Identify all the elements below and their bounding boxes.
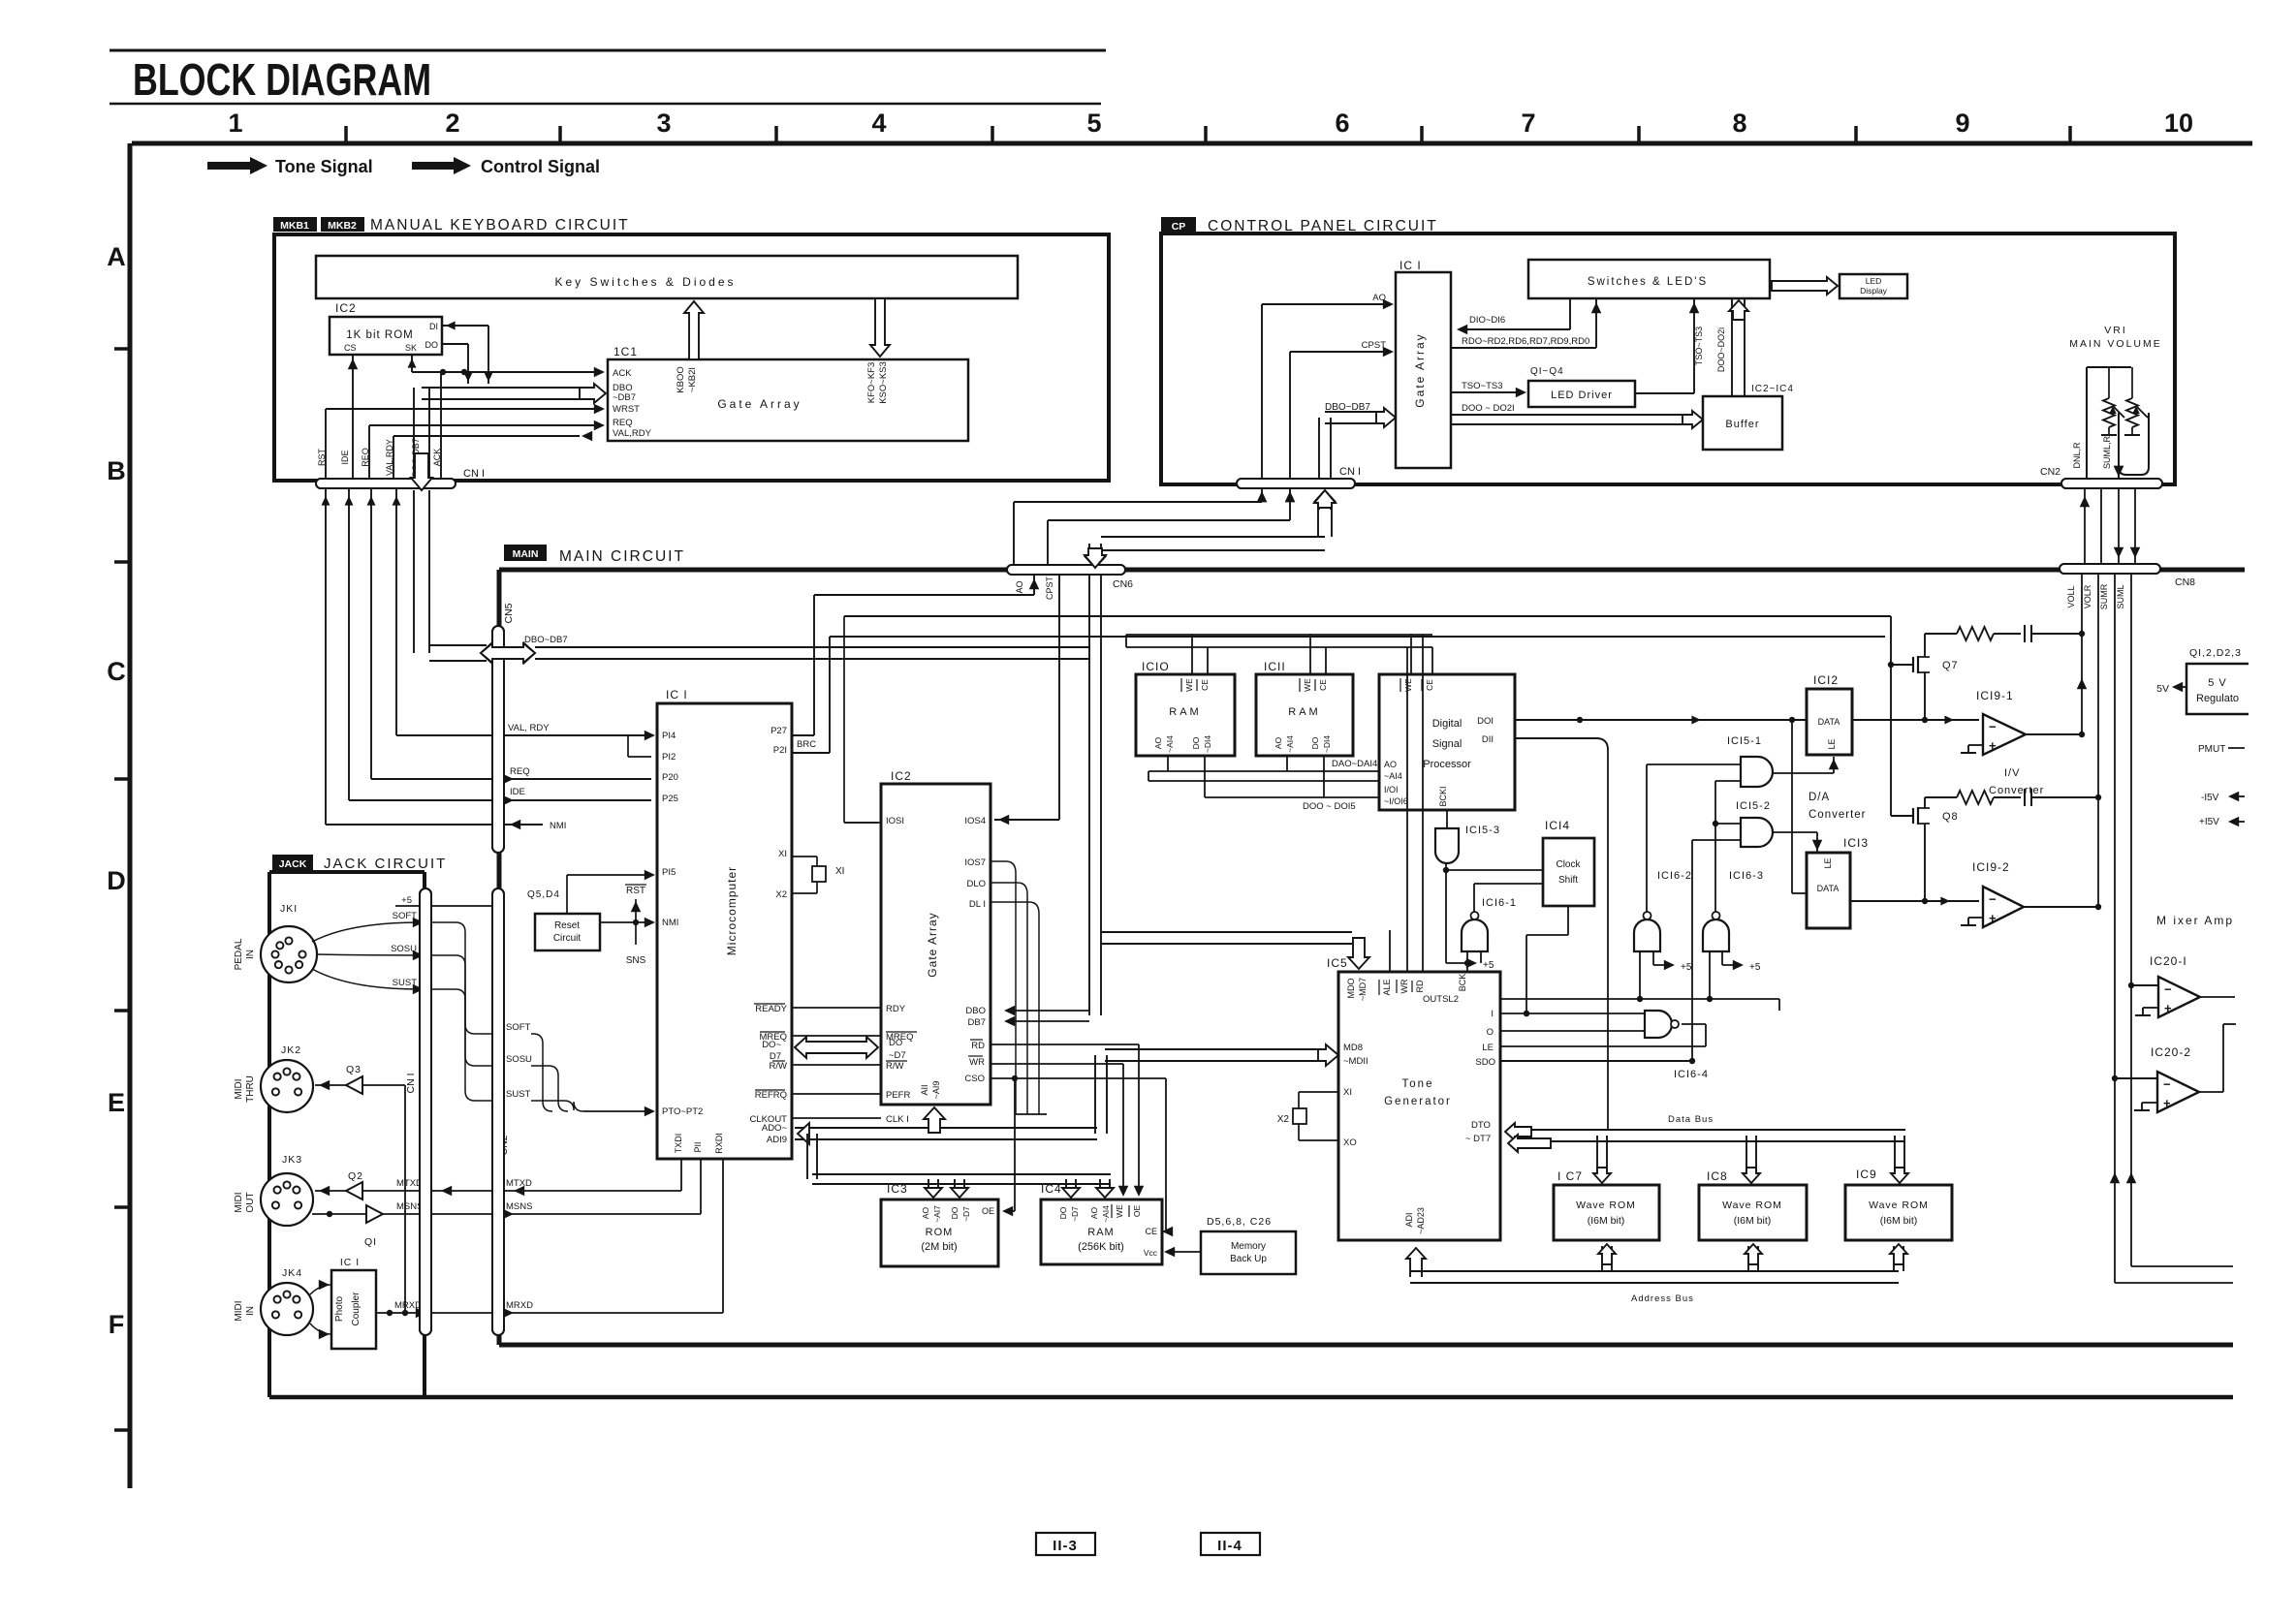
svg-text:THRU: THRU [245, 1075, 256, 1103]
svg-text:DO: DO [889, 1038, 902, 1048]
svg-text:DB7: DB7 [968, 1017, 986, 1028]
svg-text:CE: CE [1318, 679, 1328, 691]
svg-text:DL I: DL I [969, 899, 986, 910]
svg-text:IC2: IC2 [891, 769, 912, 783]
svg-text:SOSU: SOSU [506, 1054, 532, 1065]
svg-text:RAM: RAM [1288, 706, 1320, 718]
svg-text:AO: AO [1372, 293, 1386, 303]
svg-text:~D7: ~D7 [1070, 1206, 1080, 1222]
svg-text:SNS: SNS [626, 955, 646, 966]
svg-text:PEDAL: PEDAL [234, 938, 244, 970]
svg-text:DOI: DOI [1477, 716, 1494, 727]
svg-text:CE: CE [1145, 1227, 1157, 1236]
svg-text:ICI5-3: ICI5-3 [1465, 825, 1500, 836]
svg-text:ICI9-1: ICI9-1 [1976, 689, 2014, 702]
svg-text:BCK: BCK [1458, 974, 1467, 992]
svg-text:4: 4 [871, 109, 886, 138]
svg-text:VOLR: VOLR [2083, 584, 2092, 608]
svg-text:Clock: Clock [1556, 859, 1581, 870]
svg-text:VAL, RDY: VAL, RDY [508, 723, 550, 733]
svg-text:ICI6-3: ICI6-3 [1729, 870, 1764, 882]
svg-text:SUML,R: SUML,R [2102, 436, 2112, 470]
svg-text:LE: LE [1823, 857, 1833, 868]
svg-text:WR: WR [1400, 979, 1409, 993]
svg-text:IDE: IDE [340, 450, 350, 464]
svg-text:IDE: IDE [510, 787, 525, 797]
svg-text:SUML: SUML [2116, 584, 2125, 608]
svg-text:+5: +5 [401, 895, 412, 906]
svg-text:−: − [2163, 1076, 2171, 1091]
svg-text:~DB7: ~DB7 [613, 392, 636, 403]
svg-text:8: 8 [1732, 109, 1746, 138]
svg-text:AO: AO [1089, 1206, 1099, 1219]
svg-text:CSO: CSO [964, 1074, 985, 1084]
svg-text:RD: RD [971, 1041, 985, 1051]
svg-text:DBO: DBO [965, 1006, 986, 1016]
svg-text:AO: AO [921, 1206, 930, 1219]
svg-text:ICI2: ICI2 [1813, 673, 1839, 687]
svg-text:IC I: IC I [666, 688, 688, 701]
svg-text:II-3: II-3 [1053, 1538, 1078, 1554]
svg-text:CPST: CPST [1045, 576, 1054, 601]
svg-text:RAM: RAM [1087, 1227, 1114, 1238]
svg-text:~AI4: ~AI4 [1165, 735, 1175, 753]
svg-text:REQ: REQ [613, 418, 633, 428]
svg-text:Reset: Reset [554, 920, 580, 931]
svg-text:XI: XI [835, 866, 844, 877]
svg-text:SUST: SUST [506, 1089, 531, 1100]
svg-text:Shift: Shift [1558, 875, 1578, 886]
svg-text:LE: LE [1827, 738, 1837, 749]
svg-text:MAIN VOLUME: MAIN VOLUME [2069, 338, 2162, 350]
svg-text:DO: DO [950, 1206, 959, 1219]
svg-text:I C7: I C7 [1557, 1169, 1583, 1183]
svg-text:Wave ROM: Wave ROM [1869, 1199, 1929, 1211]
svg-text:Key Switches & Diodes: Key Switches & Diodes [554, 275, 736, 289]
svg-text:Display: Display [1860, 286, 1888, 296]
svg-text:M ixer Amp: M ixer Amp [2156, 914, 2234, 927]
svg-text:ROM: ROM [926, 1227, 954, 1238]
svg-text:O: O [1487, 1027, 1494, 1038]
svg-text:QI,2,D2,3: QI,2,D2,3 [2189, 647, 2242, 659]
svg-text:10: 10 [2164, 109, 2193, 138]
svg-text:PMUT: PMUT [2198, 744, 2225, 755]
svg-text:ICI5-1: ICI5-1 [1727, 735, 1762, 747]
svg-text:E: E [108, 1088, 125, 1117]
svg-text:IC8: IC8 [1707, 1169, 1728, 1183]
svg-text:Tone Signal: Tone Signal [275, 157, 373, 176]
svg-text:(I6M bit): (I6M bit) [1588, 1215, 1625, 1227]
svg-text:DLO: DLO [966, 879, 986, 889]
svg-text:JK3: JK3 [282, 1154, 302, 1166]
svg-text:Circuit: Circuit [553, 933, 582, 944]
svg-text:1C1: 1C1 [613, 345, 638, 358]
svg-text:DI: DI [429, 322, 438, 331]
svg-text:TSO~TS3: TSO~TS3 [1694, 327, 1704, 365]
svg-text:DO~: DO~ [762, 1040, 781, 1050]
svg-text:~I/OI6: ~I/OI6 [1384, 796, 1408, 806]
svg-text:IOSI: IOSI [886, 816, 904, 826]
svg-text:Gate Array: Gate Array [1413, 332, 1427, 407]
svg-text:XI: XI [1343, 1087, 1352, 1098]
svg-text:−: − [1989, 891, 1997, 906]
svg-text:Regulato: Regulato [2196, 693, 2239, 704]
svg-text:JACK: JACK [279, 858, 307, 870]
svg-text:DNL,R: DNL,R [2072, 442, 2082, 469]
svg-text:READY: READY [755, 1004, 787, 1014]
svg-text:ACK: ACK [432, 449, 442, 467]
svg-text:KSO~KS3: KSO~KS3 [878, 361, 889, 404]
svg-text:DBO~DB7: DBO~DB7 [1325, 402, 1370, 413]
svg-text:RST: RST [317, 448, 327, 466]
svg-text:D/A: D/A [1808, 792, 1830, 803]
svg-text:REQ: REQ [361, 448, 370, 467]
svg-text:MKB1: MKB1 [280, 220, 309, 232]
svg-text:AO: AO [1015, 580, 1024, 593]
svg-text:ICI4: ICI4 [1545, 819, 1570, 832]
svg-text:PII: PII [693, 1141, 703, 1152]
svg-text:Coupler: Coupler [351, 1292, 362, 1326]
svg-text:ICII: ICII [1264, 660, 1286, 673]
svg-text:RDY: RDY [886, 1004, 906, 1014]
svg-text:CN I: CN I [1339, 466, 1361, 478]
svg-text:DO: DO [1191, 736, 1201, 749]
svg-text:MTXD: MTXD [506, 1178, 532, 1189]
svg-text:-I5V: -I5V [2201, 793, 2219, 803]
svg-text:Converter: Converter [1989, 785, 2044, 796]
svg-text:DIO~DI6: DIO~DI6 [1469, 315, 1505, 326]
svg-text:~AD23: ~AD23 [1416, 1207, 1426, 1234]
svg-text:6: 6 [1335, 109, 1349, 138]
svg-text:CN6: CN6 [1113, 578, 1133, 590]
svg-text:OE: OE [1132, 1205, 1142, 1218]
svg-text:BLOCK DIAGRAM: BLOCK DIAGRAM [133, 54, 431, 105]
svg-text:5: 5 [1086, 109, 1101, 138]
svg-text:Gate Array: Gate Array [926, 912, 939, 977]
svg-text:−: − [2164, 981, 2172, 996]
svg-text:OUTSL2: OUTSL2 [1423, 994, 1459, 1005]
svg-text:JACK CIRCUIT: JACK CIRCUIT [324, 856, 447, 872]
svg-text:MIDI: MIDI [234, 1192, 244, 1212]
svg-text:D7: D7 [770, 1051, 781, 1062]
svg-text:(256K bit): (256K bit) [1078, 1241, 1124, 1253]
svg-text:DOO ~ DO2I: DOO ~ DO2I [1462, 403, 1515, 414]
svg-text:II-4: II-4 [1217, 1538, 1242, 1554]
svg-text:MDO: MDO [1346, 979, 1356, 999]
svg-text:IC2~IC4: IC2~IC4 [1751, 384, 1794, 394]
svg-text:WE: WE [1403, 678, 1413, 692]
svg-text:~D7: ~D7 [889, 1050, 906, 1061]
svg-text:+: + [2163, 1096, 2171, 1110]
svg-text:Photo: Photo [334, 1295, 345, 1322]
svg-text:ICI6-4: ICI6-4 [1674, 1069, 1709, 1080]
svg-text:~AI4: ~AI4 [1101, 1205, 1111, 1223]
svg-text:WE: WE [1184, 678, 1194, 692]
svg-text:~AI7: ~AI7 [932, 1205, 942, 1223]
svg-text:CS: CS [344, 343, 357, 353]
svg-text:MD8: MD8 [1343, 1043, 1363, 1053]
svg-text:Wave ROM: Wave ROM [1722, 1199, 1782, 1211]
svg-text:SK: SK [405, 343, 417, 353]
svg-text:(2M bit): (2M bit) [921, 1241, 957, 1253]
svg-text:Q3: Q3 [346, 1064, 362, 1075]
svg-text:AO: AO [1274, 736, 1283, 749]
svg-text:Address Bus: Address Bus [1631, 1293, 1694, 1304]
svg-text:ACK: ACK [613, 368, 632, 379]
svg-text:MRXD: MRXD [506, 1300, 533, 1311]
svg-text:IC I: IC I [1400, 259, 1422, 272]
svg-text:(I6M bit): (I6M bit) [1880, 1215, 1918, 1227]
svg-text:Digital: Digital [1432, 718, 1463, 730]
svg-text:SOFT: SOFT [506, 1022, 531, 1033]
svg-text:+5: +5 [1483, 960, 1494, 971]
svg-text:~DI4: ~DI4 [1322, 735, 1332, 753]
svg-text:Microcomputer: Microcomputer [725, 866, 739, 955]
svg-text:~AI4: ~AI4 [1384, 771, 1402, 781]
svg-text:JK4: JK4 [282, 1267, 302, 1279]
svg-text:2: 2 [445, 109, 459, 138]
svg-text:ICI5-2: ICI5-2 [1736, 800, 1771, 812]
svg-text:Vcc: Vcc [1144, 1248, 1158, 1258]
svg-text:1: 1 [228, 109, 242, 138]
svg-text:MKB2: MKB2 [328, 220, 357, 232]
svg-text:LED Driver: LED Driver [1551, 389, 1613, 401]
svg-text:RST: RST [626, 886, 645, 896]
svg-text:I/OI: I/OI [1384, 785, 1399, 794]
svg-text:C: C [107, 657, 126, 686]
svg-text:R/W: R/W [770, 1061, 788, 1072]
svg-text:JK2: JK2 [281, 1044, 301, 1056]
svg-text:PTO~PT2: PTO~PT2 [662, 1106, 703, 1117]
svg-text:A: A [107, 242, 126, 271]
svg-text:Gate Array: Gate Array [717, 397, 802, 411]
svg-text:+5: +5 [1749, 962, 1761, 973]
svg-text:TSO~TS3: TSO~TS3 [1462, 381, 1503, 391]
svg-text:IC3: IC3 [887, 1182, 908, 1196]
svg-text:IC5: IC5 [1327, 956, 1348, 970]
svg-text:Processor: Processor [1423, 759, 1471, 770]
svg-text:DTO: DTO [1471, 1120, 1491, 1131]
svg-text:MIDI: MIDI [234, 1078, 244, 1099]
svg-text:KBOO: KBOO [676, 366, 686, 392]
svg-text:P20: P20 [662, 772, 678, 783]
svg-text:I: I [1491, 1009, 1494, 1019]
svg-text:~AI9: ~AI9 [931, 1081, 941, 1100]
svg-text:CN I: CN I [463, 468, 485, 480]
svg-text:DO: DO [425, 340, 439, 350]
svg-text:3: 3 [656, 109, 671, 138]
svg-text:~AI4: ~AI4 [1285, 735, 1295, 753]
svg-text:+I5V: +I5V [2199, 817, 2219, 827]
svg-text:DBO~DB7: DBO~DB7 [524, 635, 568, 645]
svg-text:CN I: CN I [405, 1074, 417, 1094]
svg-text:ICIO: ICIO [1142, 660, 1170, 673]
svg-text:Q7: Q7 [1942, 660, 1959, 671]
svg-text:+: + [1989, 911, 1997, 925]
svg-text:Tone: Tone [1402, 1078, 1434, 1090]
svg-text:9: 9 [1955, 109, 1969, 138]
svg-text:DII: DII [1482, 734, 1494, 745]
svg-text:DO: DO [1310, 736, 1320, 749]
svg-text:BRC: BRC [797, 739, 816, 750]
svg-text:IC20-2: IC20-2 [2151, 1045, 2191, 1059]
svg-text:DOO ~ DOI5: DOO ~ DOI5 [1303, 801, 1356, 812]
svg-text:CN5: CN5 [503, 603, 515, 623]
svg-text:KFO~KF3: KFO~KF3 [866, 362, 877, 404]
svg-text:WE: WE [1303, 678, 1312, 692]
svg-text:(I6M bit): (I6M bit) [1734, 1215, 1772, 1227]
svg-text:Converter: Converter [1808, 809, 1867, 821]
svg-text:Q5,D4: Q5,D4 [527, 889, 560, 900]
svg-text:NMI: NMI [550, 821, 566, 831]
svg-text:VRI: VRI [2104, 325, 2127, 336]
svg-text:IOS4: IOS4 [964, 816, 986, 826]
svg-text:IOS7: IOS7 [964, 857, 986, 868]
svg-text:LE: LE [1482, 1043, 1494, 1053]
svg-text:MIDI: MIDI [234, 1300, 244, 1321]
svg-text:~MDII: ~MDII [1343, 1056, 1368, 1067]
svg-text:DATA: DATA [1818, 717, 1840, 727]
svg-text:CPST: CPST [1362, 340, 1387, 351]
svg-text:D: D [107, 866, 126, 895]
svg-text:WE: WE [1115, 1204, 1124, 1218]
svg-text:ICI6-2: ICI6-2 [1657, 870, 1692, 882]
svg-text:DO: DO [1058, 1206, 1068, 1219]
svg-text:DOO~DO2i: DOO~DO2i [1716, 327, 1726, 372]
svg-text:~MD7: ~MD7 [1358, 978, 1368, 1001]
svg-text:CE: CE [1200, 679, 1210, 691]
svg-text:PI2: PI2 [662, 752, 676, 763]
svg-text:PI4: PI4 [662, 731, 676, 741]
svg-text:F: F [109, 1310, 125, 1339]
svg-text:CN2: CN2 [2040, 466, 2060, 478]
svg-text:BCKI: BCKI [1438, 786, 1448, 806]
svg-text:IN: IN [245, 1306, 256, 1316]
svg-text:ICI3: ICI3 [1843, 836, 1869, 850]
svg-text:SDO: SDO [1475, 1057, 1495, 1068]
svg-text:ADI: ADI [1404, 1212, 1414, 1227]
svg-text:VAL,RDY: VAL,RDY [385, 439, 394, 476]
svg-text:AII: AII [920, 1084, 929, 1095]
svg-text:VOLL: VOLL [2066, 585, 2076, 607]
svg-text:Data Bus: Data Bus [1668, 1114, 1714, 1125]
svg-text:IC I: IC I [340, 1257, 360, 1268]
svg-text:QI~Q4: QI~Q4 [1530, 366, 1564, 377]
svg-text:MTXD: MTXD [396, 1178, 423, 1189]
svg-text:ICI9-2: ICI9-2 [1972, 860, 2010, 874]
svg-text:QI: QI [364, 1236, 377, 1248]
svg-text:CLK I: CLK I [886, 1114, 909, 1125]
svg-text:AO: AO [1384, 760, 1397, 769]
svg-text:P25: P25 [662, 794, 678, 804]
svg-text:Switches & LED'S: Switches & LED'S [1588, 276, 1708, 288]
svg-text:WRST: WRST [613, 404, 640, 415]
svg-text:WR: WR [969, 1057, 985, 1068]
svg-text:CP: CP [1172, 221, 1186, 233]
svg-text:5 V: 5 V [2208, 677, 2227, 689]
svg-text:~ DT7: ~ DT7 [1465, 1134, 1491, 1144]
svg-text:RXDI: RXDI [714, 1133, 724, 1154]
svg-text:MSNS: MSNS [506, 1201, 532, 1212]
svg-text:Generator: Generator [1384, 1096, 1452, 1107]
svg-text:IC4: IC4 [1041, 1182, 1062, 1196]
svg-text:SUMR: SUMR [2099, 583, 2109, 609]
svg-text:JKI: JKI [280, 903, 298, 915]
svg-text:ICI6-1: ICI6-1 [1482, 897, 1517, 909]
svg-text:XO: XO [1343, 1137, 1357, 1148]
svg-text:B: B [107, 456, 126, 485]
svg-text:ALE: ALE [1382, 979, 1392, 995]
svg-text:R/W: R/W [886, 1061, 904, 1072]
svg-text:NMI: NMI [662, 918, 678, 928]
svg-text:CN8: CN8 [2175, 576, 2195, 588]
svg-text:Buffer: Buffer [1725, 419, 1759, 430]
svg-text:Back Up: Back Up [1230, 1254, 1267, 1264]
svg-text:RDO~RD2,RD6,RD7,RD9,RD0: RDO~RD2,RD6,RD7,RD9,RD0 [1462, 336, 1589, 347]
svg-text:RD: RD [1415, 980, 1425, 992]
svg-text:Control Signal: Control Signal [481, 157, 600, 176]
svg-text:Signal: Signal [1432, 738, 1463, 750]
svg-text:AO: AO [1153, 736, 1163, 749]
svg-text:ADI9: ADI9 [767, 1135, 787, 1145]
svg-text:MAIN CIRCUIT: MAIN CIRCUIT [559, 548, 685, 565]
svg-text:~D7: ~D7 [961, 1206, 971, 1222]
svg-text:IC9: IC9 [1856, 1168, 1877, 1181]
svg-text:~KB2I: ~KB2I [687, 367, 698, 392]
svg-text:IC20-I: IC20-I [2150, 954, 2187, 968]
svg-text:1K bit ROM: 1K bit ROM [346, 329, 413, 341]
svg-text:OUT: OUT [245, 1192, 256, 1212]
svg-text:VAL,RDY: VAL,RDY [613, 428, 652, 439]
svg-text:−: − [1989, 719, 1997, 733]
svg-text:PI5: PI5 [662, 867, 676, 878]
svg-text:Wave ROM: Wave ROM [1576, 1199, 1636, 1211]
svg-text:5V: 5V [2156, 683, 2169, 695]
svg-text:IN: IN [245, 950, 256, 959]
svg-text:Q2: Q2 [348, 1170, 363, 1182]
svg-text:+: + [2164, 1001, 2172, 1015]
svg-text:~DI4: ~DI4 [1203, 735, 1212, 753]
svg-text:PEFR: PEFR [886, 1090, 910, 1101]
svg-text:REQ: REQ [510, 766, 530, 777]
svg-text:P27: P27 [771, 726, 787, 736]
svg-text:+: + [1989, 738, 1997, 753]
svg-text:XI: XI [778, 849, 787, 859]
svg-text:ADO~: ADO~ [762, 1123, 788, 1134]
svg-text:OE: OE [982, 1206, 994, 1216]
svg-text:P2I: P2I [773, 745, 787, 756]
svg-text:CE: CE [1425, 679, 1434, 691]
svg-text:LED: LED [1866, 276, 1882, 286]
svg-text:+5: +5 [1681, 962, 1692, 973]
svg-text:X2: X2 [775, 889, 787, 900]
svg-text:7: 7 [1521, 109, 1535, 138]
svg-text:RAM: RAM [1169, 706, 1201, 718]
svg-text:D5,6,8, C26: D5,6,8, C26 [1207, 1216, 1272, 1228]
svg-text:MAIN: MAIN [513, 548, 539, 560]
svg-text:IC2: IC2 [335, 301, 357, 315]
svg-text:TXDI: TXDI [674, 1134, 683, 1154]
svg-text:MANUAL KEYBOARD CIRCUIT: MANUAL KEYBOARD CIRCUIT [370, 217, 630, 234]
svg-text:Q8: Q8 [1942, 811, 1959, 823]
svg-text:DAO~DAI4: DAO~DAI4 [1332, 759, 1377, 769]
svg-text:Memory: Memory [1231, 1241, 1266, 1252]
svg-text:I/V: I/V [2004, 767, 2020, 779]
svg-text:DATA: DATA [1817, 884, 1840, 893]
svg-text:REFRQ: REFRQ [755, 1090, 787, 1101]
svg-text:X2: X2 [1277, 1114, 1290, 1125]
